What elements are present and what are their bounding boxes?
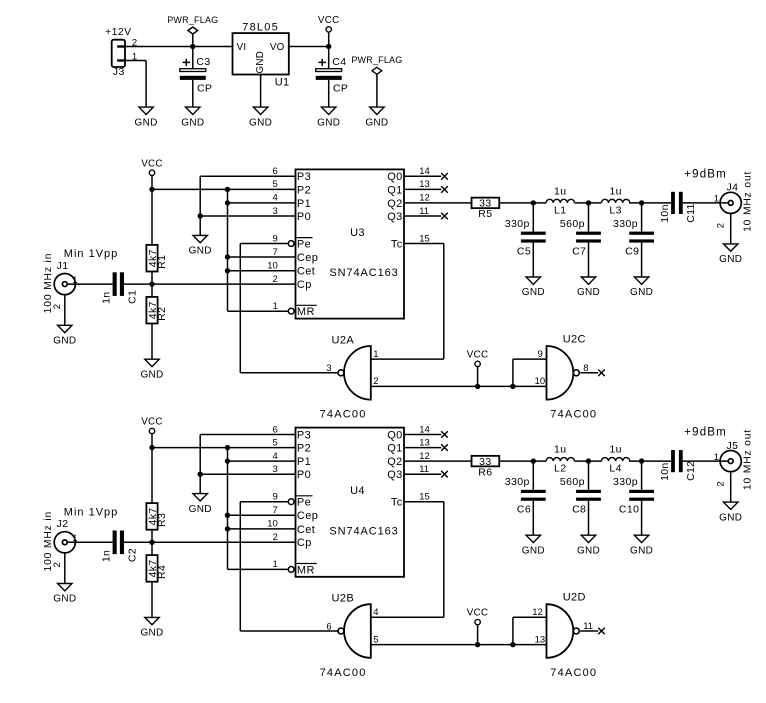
svg-text:74AC00: 74AC00 <box>320 667 367 679</box>
inductor L1 <box>546 185 574 216</box>
resistor R2 <box>146 297 168 324</box>
capacitor C6 <box>505 476 546 515</box>
ground at J2 <box>53 584 76 605</box>
junction P2 bus ch1 <box>225 187 230 192</box>
svg-text:330p: 330p <box>613 476 638 488</box>
capacitor C5 <box>505 218 546 257</box>
power VCC ch1 bias <box>141 158 163 189</box>
pin names left U4 <box>296 429 318 576</box>
no-connect Q3 ch2 <box>441 471 448 478</box>
svg-text:GND: GND <box>53 336 76 347</box>
wire C7 to ground <box>588 243 590 277</box>
svg-text:12: 12 <box>419 451 430 462</box>
svg-text:C5: C5 <box>517 245 531 257</box>
pin bubble MR U4 <box>288 567 294 573</box>
ground at R4 <box>140 617 163 638</box>
svg-text:CP: CP <box>333 83 348 95</box>
svg-text:C7: C7 <box>572 245 586 257</box>
svg-text:C4: C4 <box>332 56 346 68</box>
svg-text:C1: C1 <box>126 290 138 304</box>
wire L3 to C11 <box>629 202 671 204</box>
wire Cep row ch2 <box>228 514 296 516</box>
svg-text:VCC: VCC <box>318 15 340 26</box>
svg-text:11: 11 <box>419 464 429 475</box>
svg-text:C8: C8 <box>572 504 586 516</box>
svg-text:Pe: Pe <box>297 497 311 509</box>
wire R2 to ground <box>151 324 153 360</box>
wire C10 stem <box>641 461 643 490</box>
wire P3 row ch1 <box>200 175 295 177</box>
svg-text:10n: 10n <box>659 204 671 222</box>
wire Tc to gate input ch1 <box>371 358 444 360</box>
svg-text:2: 2 <box>715 481 726 486</box>
junction gate input loop ch2 <box>510 642 515 647</box>
svg-text:Cep: Cep <box>297 510 318 522</box>
wire C6 to ground <box>532 501 534 535</box>
ground at J3 pin1 <box>135 107 158 128</box>
svg-text:L4: L4 <box>609 463 621 475</box>
svg-text:13: 13 <box>419 437 430 448</box>
svg-text:10: 10 <box>267 261 278 272</box>
inductor L3 <box>601 185 629 216</box>
wire vertical bus ch1 <box>227 189 229 311</box>
power VCC at U1 output <box>318 15 340 47</box>
junction VCC gate ch1 <box>475 384 480 389</box>
svg-text:74AC00: 74AC00 <box>550 667 597 679</box>
wire Q3 stub ch1 <box>404 215 441 217</box>
capacitor C9 <box>613 218 654 257</box>
svg-text:U2D: U2D <box>563 592 586 604</box>
junction C6 node <box>531 458 536 463</box>
svg-text:GND: GND <box>719 512 742 523</box>
svg-text:330p: 330p <box>613 218 638 230</box>
wire gate out to Pe ch1 <box>240 372 338 374</box>
junction C7 node <box>586 200 591 205</box>
wire L4 to C12 <box>629 460 671 462</box>
svg-text:C11: C11 <box>685 203 697 222</box>
wire P3/P0 gnd drop ch2 <box>199 435 201 494</box>
svg-text:560p: 560p <box>560 476 585 488</box>
svg-text:5: 5 <box>273 437 278 448</box>
wire P1 row ch2 <box>228 460 296 462</box>
capacitor C11 output <box>659 192 697 223</box>
wire C8 to ground <box>588 501 590 535</box>
svg-text:J1: J1 <box>57 260 69 272</box>
svg-text:2: 2 <box>273 532 278 543</box>
wire U2D input loop up ch2 <box>512 617 514 644</box>
svg-text:Min 1Vpp: Min 1Vpp <box>64 248 118 260</box>
svg-text:J2: J2 <box>57 518 69 530</box>
pin names left U3 <box>296 171 318 318</box>
junction Cep bus ch1 <box>225 254 230 259</box>
wire +12V node to C3 <box>192 47 194 69</box>
svg-text:Q1: Q1 <box>387 443 402 455</box>
wire Tc to gate input ch2 <box>371 616 444 618</box>
wire MR row ch2 <box>228 568 289 570</box>
svg-text:GND: GND <box>719 254 742 265</box>
svg-text:GND: GND <box>630 545 653 556</box>
wire J3 pin1 down <box>145 61 147 108</box>
svg-text:P2: P2 <box>297 184 311 196</box>
svg-text:P3: P3 <box>297 171 311 183</box>
wire U2D output stub ch2 <box>580 630 598 632</box>
svg-text:10n: 10n <box>659 462 671 480</box>
power VCC gates ch2 <box>467 608 489 645</box>
no-connect Q1 ch1 <box>441 186 448 193</box>
wire C11 to J4 <box>683 202 729 204</box>
wire U2C output stub ch1 <box>580 372 598 374</box>
svg-text:1n: 1n <box>101 292 113 304</box>
svg-text:10 MHz out: 10 MHz out <box>742 429 753 490</box>
wire U1 VO to VCC node <box>289 46 329 48</box>
wire C8 stem <box>588 461 590 490</box>
wire L1 to L3 <box>575 202 602 204</box>
svg-text:MR: MR <box>297 564 315 576</box>
wire Cet row ch1 <box>228 270 296 272</box>
resistor R6 <box>472 456 500 479</box>
svg-text:Tc: Tc <box>391 238 403 250</box>
svg-text:Q2: Q2 <box>387 198 402 210</box>
svg-text:78L05: 78L05 <box>242 21 279 33</box>
pin bubble Pe U3 <box>288 241 294 247</box>
wire C12 to J5 <box>683 460 729 462</box>
svg-text:GND: GND <box>630 287 653 298</box>
svg-text:1: 1 <box>273 301 278 312</box>
svg-text:CP: CP <box>197 83 212 95</box>
nand gate U2A <box>320 334 371 420</box>
junction Cep bus ch2 <box>225 513 230 518</box>
wire C3 to ground <box>192 80 194 107</box>
svg-text:2: 2 <box>52 562 63 567</box>
ground at J5 <box>719 502 742 523</box>
svg-text:J4: J4 <box>727 182 739 194</box>
pin numbers right U3 <box>419 166 430 244</box>
svg-text:7: 7 <box>273 505 278 516</box>
svg-text:L2: L2 <box>554 463 566 475</box>
svg-text:4: 4 <box>273 193 278 204</box>
svg-text:GND: GND <box>365 117 388 128</box>
wire P1 row ch1 <box>228 202 296 204</box>
svg-text:6: 6 <box>273 166 278 177</box>
wire U1 GND pin down <box>260 75 262 108</box>
junction VCC node <box>326 44 331 49</box>
svg-text:C3: C3 <box>196 56 210 68</box>
svg-text:R4: R4 <box>156 565 168 579</box>
svg-text:P1: P1 <box>297 198 311 210</box>
wire VCC down to R3 <box>151 448 153 504</box>
capacitor C7 <box>560 218 601 257</box>
junction P2 bus ch2 <box>225 445 230 450</box>
svg-text:3: 3 <box>273 206 278 217</box>
ground at P3/P0 ch2 <box>189 494 212 515</box>
wire P2 row VCC ch2 <box>152 447 296 449</box>
nand gate U2C <box>547 333 598 420</box>
capacitor C4 <box>316 56 349 94</box>
wire Q1 stub ch1 <box>404 188 441 190</box>
svg-text:VCC: VCC <box>141 158 163 169</box>
svg-text:5: 5 <box>273 179 278 190</box>
wire R6 to filter ch2 <box>499 460 546 462</box>
resistor R5 <box>472 198 500 221</box>
no-connect U2C output <box>598 370 605 377</box>
wire Q2 to R5 <box>404 202 472 204</box>
svg-text:Q1: Q1 <box>387 184 402 196</box>
pin numbers left U4 <box>267 424 278 570</box>
svg-text:P0: P0 <box>297 469 311 481</box>
BNC connector J2 input <box>54 518 75 553</box>
svg-text:R1: R1 <box>156 255 168 269</box>
wire J1 pin1 to C1 <box>67 283 112 285</box>
BNC connector J4 output <box>720 182 741 214</box>
svg-text:GND: GND <box>181 117 204 128</box>
wire J4 pin2 down <box>730 214 732 244</box>
svg-text:MR: MR <box>297 306 315 318</box>
svg-text:J5: J5 <box>727 440 739 452</box>
svg-text:1u: 1u <box>609 185 621 197</box>
junction Cet bus ch1 <box>225 268 230 273</box>
svg-text:+9dBm: +9dBm <box>684 427 727 439</box>
wire Pe row ch1 <box>240 243 288 245</box>
svg-text:SN74AC163: SN74AC163 <box>329 525 398 537</box>
wire U2D input top ch2 <box>513 616 547 618</box>
ground at C6 <box>522 535 545 556</box>
svg-text:VCC: VCC <box>141 417 163 428</box>
capacitor C12 output <box>659 450 697 481</box>
svg-text:4: 4 <box>273 451 278 462</box>
wire C2 to bias node <box>124 541 296 543</box>
svg-text:PWR_FLAG: PWR_FLAG <box>167 15 218 25</box>
svg-text:1n: 1n <box>101 550 113 562</box>
pin bubble Pe U4 <box>288 499 294 505</box>
svg-text:GND: GND <box>53 594 76 605</box>
wire C4 to ground <box>328 80 330 107</box>
regulator U1 78L05 <box>233 21 290 88</box>
svg-text:Min 1Vpp: Min 1Vpp <box>64 506 118 518</box>
svg-text:R6: R6 <box>478 466 492 478</box>
wire C7 stem <box>588 203 590 232</box>
capacitor C2 coupling <box>101 531 139 563</box>
svg-text:+9dBm: +9dBm <box>684 168 727 180</box>
svg-text:C10: C10 <box>619 504 639 516</box>
wire gate out to Pe ch2 <box>240 630 338 632</box>
inductor L2 <box>546 444 574 475</box>
junction VCC rail ch2 <box>149 445 154 450</box>
svg-text:2: 2 <box>52 304 63 309</box>
svg-text:15: 15 <box>419 492 430 503</box>
wire J5 pin2 down <box>730 472 732 502</box>
connector J3 <box>105 26 131 78</box>
BNC connector J5 output <box>720 440 741 472</box>
ground at C9 <box>630 277 653 298</box>
counter U3 SN74AC163 <box>296 169 405 318</box>
wire C5 to ground <box>532 243 534 277</box>
svg-text:2: 2 <box>273 274 278 285</box>
svg-text:Q2: Q2 <box>387 456 402 468</box>
wire R4 to ground <box>151 582 153 618</box>
wire L2 to L4 <box>575 460 602 462</box>
junction gate input loop ch1 <box>510 384 515 389</box>
svg-text:GND: GND <box>140 369 163 380</box>
svg-text:U1: U1 <box>275 77 290 89</box>
ground at C8 <box>577 535 600 556</box>
wire Pe drop to gate ch2 <box>239 502 241 631</box>
wire VCC node to C4 <box>328 47 330 69</box>
svg-text:14: 14 <box>419 166 430 177</box>
no-connect U2D output <box>598 628 605 635</box>
ground at C3 <box>181 107 204 128</box>
ground at J1 <box>53 325 76 346</box>
svg-text:2: 2 <box>373 376 378 387</box>
svg-text:1u: 1u <box>554 185 566 197</box>
wire R5 to filter ch1 <box>499 202 546 204</box>
svg-text:9: 9 <box>538 349 543 360</box>
no-connect Q0 ch2 <box>441 431 448 438</box>
junction C8 node <box>586 458 591 463</box>
svg-text:1: 1 <box>714 452 719 463</box>
wire C9 to ground <box>641 243 643 277</box>
svg-text:GND: GND <box>255 51 266 74</box>
junction +12V node <box>190 44 195 49</box>
svg-text:GND: GND <box>522 545 545 556</box>
svg-text:12: 12 <box>532 607 543 618</box>
svg-text:PWR_FLAG: PWR_FLAG <box>351 55 402 65</box>
wire Q2 to R6 <box>404 460 472 462</box>
svg-text:6: 6 <box>326 621 331 632</box>
svg-text:GND: GND <box>189 246 212 257</box>
svg-text:R2: R2 <box>156 307 168 321</box>
wire Tc drop ch1 <box>443 244 445 360</box>
counter U4 SN74AC163 <box>296 428 405 577</box>
svg-text:12: 12 <box>419 193 430 204</box>
ground at U1 <box>249 107 272 128</box>
junction bias node ch2 <box>149 540 154 545</box>
svg-text:J3: J3 <box>113 66 125 78</box>
pin bubble MR U3 <box>288 308 294 314</box>
wire J2 pin1 to C2 <box>67 541 112 543</box>
svg-text:U2C: U2C <box>563 333 586 345</box>
svg-text:Q0: Q0 <box>387 429 402 441</box>
svg-text:1: 1 <box>373 349 378 360</box>
resistor R1 <box>146 245 168 272</box>
wire C10 to ground <box>641 501 643 535</box>
svg-text:560p: 560p <box>560 218 585 230</box>
wire R1 to R2 <box>151 272 153 297</box>
wire Q0 stub ch2 <box>404 434 441 436</box>
svg-text:74AC00: 74AC00 <box>550 409 597 421</box>
svg-text:C6: C6 <box>517 504 531 516</box>
wire P3 row ch2 <box>200 434 295 436</box>
svg-text:U3: U3 <box>350 227 365 239</box>
capacitor C8 <box>560 476 601 515</box>
resistor R4 <box>146 555 168 582</box>
svg-text:6: 6 <box>273 424 278 435</box>
svg-text:P1: P1 <box>297 456 311 468</box>
svg-text:VCC: VCC <box>467 608 489 619</box>
wire gate inputs tie ch2 <box>371 644 547 646</box>
pin names right U4 <box>387 429 403 508</box>
junction bias node ch1 <box>149 281 154 286</box>
junction C10 node <box>639 458 644 463</box>
svg-text:Cet: Cet <box>297 524 315 536</box>
capacitor C10 <box>613 476 654 515</box>
svg-text:15: 15 <box>419 233 430 244</box>
svg-text:3: 3 <box>273 464 278 475</box>
svg-text:10: 10 <box>267 519 278 530</box>
wire J3 pin2 to U1 VI <box>125 46 233 48</box>
wire C5 stem <box>532 203 534 232</box>
BNC connector J1 input <box>54 260 75 295</box>
wire Pe drop to gate ch1 <box>239 244 241 373</box>
svg-text:C12: C12 <box>685 461 697 481</box>
wire Tc right ch2 <box>404 501 444 503</box>
pin numbers right U4 <box>419 424 430 502</box>
svg-text:C2: C2 <box>126 548 138 562</box>
svg-text:13: 13 <box>535 634 546 645</box>
wire Q0 stub ch1 <box>404 175 441 177</box>
svg-text:P3: P3 <box>297 429 311 441</box>
svg-text:R5: R5 <box>478 208 492 220</box>
svg-text:9: 9 <box>273 492 278 503</box>
no-connect Q0 ch1 <box>441 173 448 180</box>
svg-text:R3: R3 <box>156 513 168 527</box>
resistor R3 <box>146 503 168 530</box>
svg-text:P2: P2 <box>297 443 311 455</box>
svg-text:Q3: Q3 <box>387 211 402 223</box>
no-connect Q3 ch1 <box>441 213 448 220</box>
svg-text:L3: L3 <box>609 205 621 217</box>
ground at C5 <box>522 277 545 298</box>
svg-text:74AC00: 74AC00 <box>320 409 367 421</box>
no-connect Q1 ch2 <box>441 444 448 451</box>
svg-text:Q3: Q3 <box>387 469 402 481</box>
junction P0 gnd ch1 <box>198 213 203 218</box>
svg-text:GND: GND <box>135 117 158 128</box>
svg-text:10: 10 <box>535 376 546 387</box>
wire R3 to R4 <box>151 530 153 555</box>
svg-text:Tc: Tc <box>391 497 403 509</box>
svg-text:1u: 1u <box>609 444 621 456</box>
svg-text:Q0: Q0 <box>387 171 402 183</box>
wire gate inputs tie ch1 <box>371 385 547 387</box>
svg-text:GND: GND <box>317 117 340 128</box>
wire Tc right ch1 <box>404 243 444 245</box>
svg-text:VO: VO <box>270 42 285 53</box>
wire P0 row ch2 <box>200 473 295 475</box>
svg-text:Pe: Pe <box>297 238 311 250</box>
nand gate U2D <box>547 592 598 679</box>
svg-text:330p: 330p <box>505 218 530 230</box>
capacitor C1 coupling <box>101 272 139 304</box>
svg-text:GND: GND <box>522 287 545 298</box>
wire C1 to bias node <box>124 283 296 285</box>
ground at R2 <box>140 359 163 380</box>
power flag PWR_FLAG on GND <box>351 55 402 107</box>
svg-text:U2B: U2B <box>332 593 355 605</box>
svg-text:3: 3 <box>326 363 331 374</box>
ground at P3/P0 ch1 <box>189 235 212 256</box>
junction VCC rail ch1 <box>149 187 154 192</box>
svg-text:GND: GND <box>577 287 600 298</box>
nand gate U2B <box>320 593 371 679</box>
wire VCC down to R1 <box>151 189 153 245</box>
wire MR row ch1 <box>228 310 289 312</box>
wire Tc drop ch2 <box>443 502 445 618</box>
power VCC ch2 bias <box>141 417 163 448</box>
svg-text:11: 11 <box>419 206 429 217</box>
junction P1 bus ch2 <box>225 458 230 463</box>
wire J1 pin2 down <box>64 295 66 326</box>
svg-text:+12V: +12V <box>105 26 131 38</box>
